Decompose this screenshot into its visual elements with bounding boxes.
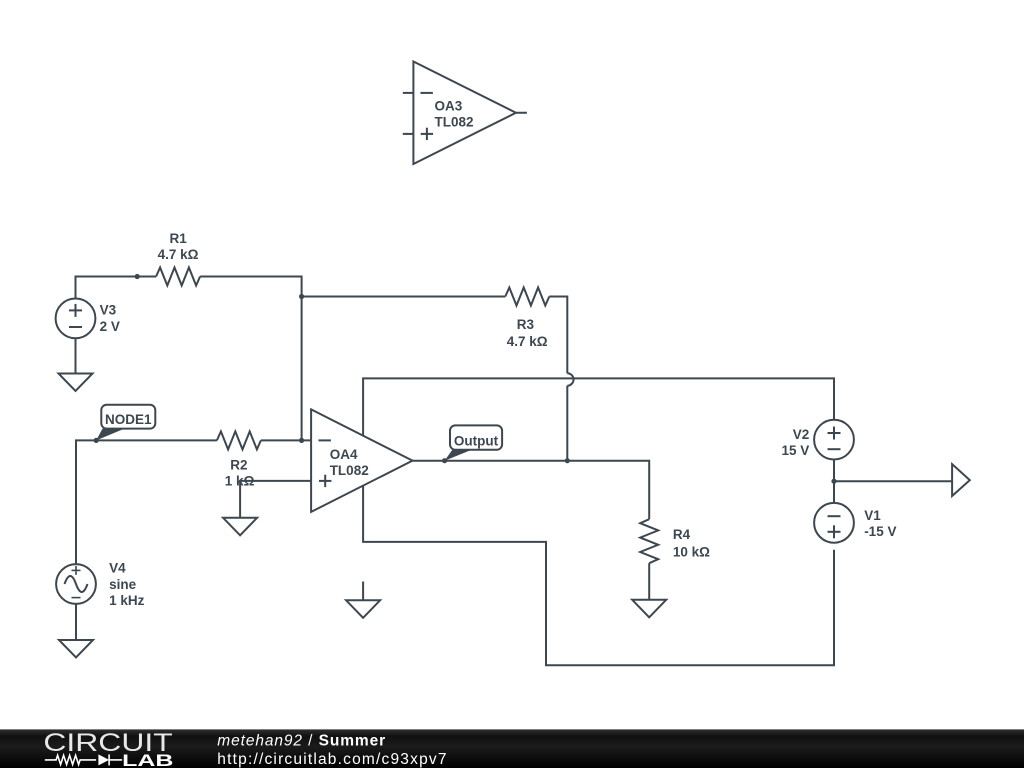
wire OA4 output to R4 top — [413, 461, 650, 520]
svg-text:4.7 kΩ: 4.7 kΩ — [507, 334, 548, 349]
svg-text:http://circuitlab.com/c93xpv7: http://circuitlab.com/c93xpv7 — [217, 751, 447, 768]
junction dot R1 left — [135, 274, 140, 279]
junction dot Output anchor — [442, 458, 447, 463]
wire V3 top to R1 left lead — [76, 277, 157, 299]
op-amp OA4 — [311, 409, 412, 512]
svg-text:R3: R3 — [517, 317, 535, 332]
svg-text:R2: R2 — [230, 458, 247, 473]
wire mid supply to output port — [834, 480, 952, 482]
wire hop over supply rail — [567, 373, 573, 386]
resistor R3 4.7k zigzag — [505, 288, 549, 306]
svg-text:R4: R4 — [673, 527, 691, 542]
svg-text:Output: Output — [454, 434, 499, 449]
wire V2 bottom to V1 top — [833, 460, 835, 503]
flag Output — [445, 425, 503, 460]
junction dot minus input node — [299, 438, 304, 443]
wire supply loop V2 top around to V1 bottom — [363, 378, 834, 665]
svg-text:10 kΩ: 10 kΩ — [673, 545, 710, 560]
voltage source V3 2V — [56, 299, 96, 339]
wire R2 right lead to minus node — [261, 439, 302, 441]
wire R3 right lead down to hop — [549, 297, 567, 374]
svg-text:sine: sine — [109, 577, 137, 592]
wire V4 up to NODE1 row to R2 left lead — [76, 440, 217, 564]
ground below V3 — [59, 374, 93, 392]
wire OA4 plus input to ground — [240, 481, 311, 518]
junction dot NODE1 anchor — [94, 438, 99, 443]
svg-text:1 kHz: 1 kHz — [109, 593, 145, 608]
op-amp OA3 (floating, top) — [403, 62, 527, 165]
wire R3 branch from node to R3 left lead — [302, 296, 506, 298]
svg-text:-15 V: -15 V — [864, 524, 896, 539]
voltage source V2 15V — [814, 420, 854, 460]
svg-text:1 kΩ: 1 kΩ — [225, 473, 255, 488]
resistor R4 10k zigzag (vertical) — [640, 519, 658, 563]
svg-text:V2: V2 — [793, 427, 810, 442]
flag NODE1 — [96, 405, 155, 441]
wire R4 bottom lead to ground — [648, 563, 650, 600]
ground below V4 — [59, 640, 93, 658]
wire V3 bottom to ground — [75, 338, 77, 373]
junction dot supply midpoint — [831, 479, 836, 484]
ground below R4 — [632, 600, 666, 618]
wire R1 right lead to corner down to OA4 minus input — [200, 277, 311, 441]
svg-text:V3: V3 — [100, 302, 117, 317]
resistor R2 1k zigzag — [217, 431, 261, 449]
svg-text:OA3: OA3 — [435, 99, 463, 114]
svg-text:metehan92 / Summer: metehan92 / Summer — [217, 733, 386, 750]
svg-text:NODE1: NODE1 — [105, 412, 152, 427]
resistor R1 4.7k zigzag — [156, 268, 200, 286]
wire stub of floating ground — [362, 582, 364, 601]
svg-text:V4: V4 — [109, 561, 126, 576]
svg-text:R1: R1 — [169, 231, 187, 246]
svg-text:OA4: OA4 — [330, 447, 358, 462]
svg-text:TL082: TL082 — [435, 114, 474, 129]
wire V4 bottom to ground — [75, 604, 77, 640]
voltage source V4 sine — [56, 564, 96, 604]
CircuitLab logo resistor-diode symbol — [45, 754, 122, 765]
voltage source V1 -15V — [814, 503, 854, 543]
output port arrow — [952, 464, 970, 496]
junction dot feedback to output — [565, 458, 570, 463]
svg-text:LAB: LAB — [122, 751, 173, 768]
svg-text:4.7 kΩ: 4.7 kΩ — [158, 247, 199, 262]
junction dot R3 branch — [299, 294, 304, 299]
wire hop bottom to output node — [566, 386, 568, 461]
ground floating below OA4 — [346, 600, 380, 618]
svg-text:TL082: TL082 — [330, 463, 369, 478]
svg-text:15 V: 15 V — [782, 443, 810, 458]
ground below R2 / plus input — [223, 518, 257, 536]
svg-text:2 V: 2 V — [100, 319, 120, 334]
svg-text:V1: V1 — [864, 508, 881, 523]
